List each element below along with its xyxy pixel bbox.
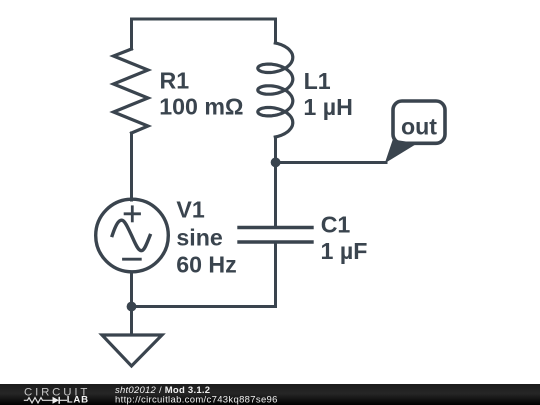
resistor R1 xyxy=(114,49,149,133)
wire C1 to node out xyxy=(274,163,277,226)
wire top horizontal xyxy=(132,18,276,21)
CircuitLab logo xyxy=(24,387,90,405)
svg-text:http://circuitlab.com/c743kq88: http://circuitlab.com/c743kq887se96 xyxy=(115,394,278,405)
wire top-right vertical (to L1) xyxy=(274,19,277,43)
voltage source V1 xyxy=(96,199,169,272)
out flag box xyxy=(385,101,445,163)
svg-text:V1: V1 xyxy=(176,197,204,223)
wire node to out flag xyxy=(276,161,387,164)
wire V1 to bottom junction xyxy=(130,272,133,334)
svg-text:1 µF: 1 µF xyxy=(321,238,368,264)
junction node bottom xyxy=(127,302,137,312)
wire bottom-right vertical (to C1) xyxy=(274,243,277,307)
capacitor C1 xyxy=(239,228,312,243)
junction node at out xyxy=(271,158,281,168)
svg-text:L1: L1 xyxy=(304,68,331,94)
wire bottom horizontal xyxy=(132,305,276,308)
svg-text:LAB: LAB xyxy=(67,395,89,405)
svg-text:100 mΩ: 100 mΩ xyxy=(159,94,243,120)
svg-text:C1: C1 xyxy=(321,212,351,238)
svg-text:R1: R1 xyxy=(160,67,190,93)
svg-text:1 µH: 1 µH xyxy=(303,94,352,120)
svg-text:60 Hz: 60 Hz xyxy=(176,251,237,277)
wire R1 to V1 xyxy=(130,133,133,200)
svg-text:sine: sine xyxy=(176,224,223,250)
inductor L1 xyxy=(258,43,293,137)
ground xyxy=(102,335,162,366)
svg-text:out: out xyxy=(401,113,437,139)
wire inductor bottom stub xyxy=(274,137,277,163)
wire top-left vertical (to R1) xyxy=(130,19,133,49)
